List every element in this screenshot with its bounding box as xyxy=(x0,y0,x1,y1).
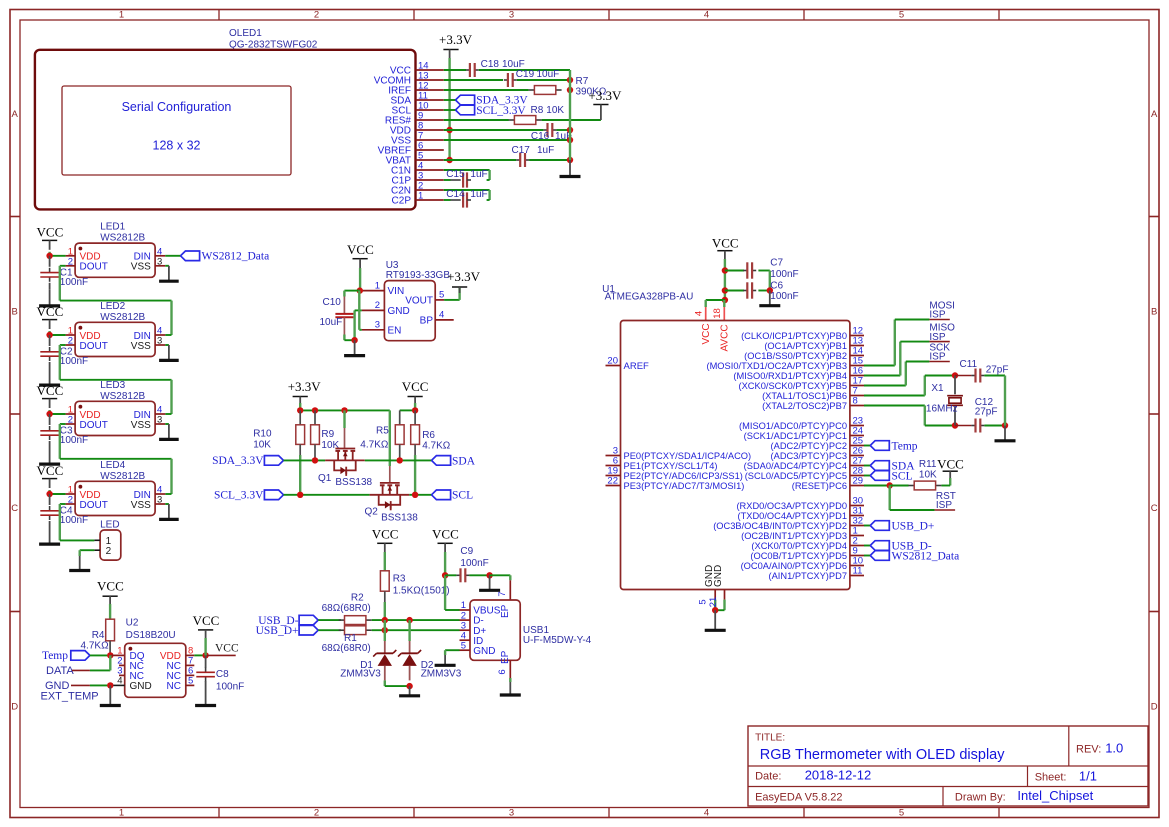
wire Q2 to SCL flag xyxy=(409,494,431,496)
svg-text:NC: NC xyxy=(167,681,181,692)
svg-text:PE2(PTCY/ADC6/ICP3/SS1): PE2(PTCY/ADC6/ICP3/SS1) xyxy=(624,471,743,481)
svg-text:100nF: 100nF xyxy=(60,435,88,446)
svg-text:VCC: VCC xyxy=(37,463,64,478)
transistor Q2 BSS138 xyxy=(370,494,410,496)
net flag USB_D- U1 xyxy=(870,541,889,551)
LED4 pin 1 VDD xyxy=(66,493,76,495)
capacitor C19 xyxy=(504,79,508,81)
svg-text:C7: C7 xyxy=(770,258,783,269)
resistor R7 xyxy=(529,89,535,91)
svg-text:27pF: 27pF xyxy=(986,364,1009,375)
svg-text:C18: C18 xyxy=(481,59,500,70)
svg-text:10K: 10K xyxy=(253,440,271,451)
svg-text:+3.3V: +3.3V xyxy=(439,32,473,47)
svg-text:DOUT: DOUT xyxy=(80,262,108,273)
svg-text:100nF: 100nF xyxy=(770,291,798,302)
junction dot C19 ground rail xyxy=(567,77,573,83)
ground symbol OLED decoupling rail xyxy=(569,160,571,177)
svg-text:OLED1: OLED1 xyxy=(229,28,262,39)
svg-text:27pF: 27pF xyxy=(975,406,998,417)
junction dot C7 line xyxy=(722,267,728,273)
net label RST ISP xyxy=(935,509,956,511)
wire C2N loop xyxy=(444,189,490,191)
U2 body xyxy=(125,643,186,697)
wire PB4 to MISO ISP xyxy=(864,375,900,377)
ground rail vertical at OLED right xyxy=(569,70,571,160)
capacitor C10 xyxy=(343,291,345,297)
wire Q1 to SDA flag xyxy=(365,459,432,461)
OLED1 pin 5 VBAT xyxy=(416,159,444,161)
ground symbol C1 xyxy=(49,290,51,306)
U1 pin 23 PC0 xyxy=(850,425,864,427)
svg-text:Q2: Q2 xyxy=(365,507,379,518)
net flag WS2812_Data U1 xyxy=(870,551,889,561)
wire VCC to LED1 VDD xyxy=(50,255,66,257)
junction dot D2 D- xyxy=(406,617,412,623)
svg-text:(OC2B/INT1/PTCXY)PD3: (OC2B/INT1/PTCXY)PD3 xyxy=(741,531,847,541)
svg-text:(XTAL1/TOSC1)PB6: (XTAL1/TOSC1)PB6 xyxy=(762,391,847,401)
wire SDA_3.3V line xyxy=(284,459,326,461)
svg-text:VCC: VCC xyxy=(37,304,64,319)
wire USB_D- to R2 xyxy=(318,619,341,621)
svg-text:5: 5 xyxy=(899,807,904,818)
ground symbol U2 xyxy=(109,685,111,705)
U1 pin 8 PB7 xyxy=(850,405,864,407)
svg-text:C6: C6 xyxy=(770,280,783,291)
junction dot VDD +3.3V xyxy=(446,127,452,133)
USB1 pin 3 D+ xyxy=(460,629,471,631)
wire USB_D+ to R1 xyxy=(318,629,341,631)
svg-text:BSS138: BSS138 xyxy=(335,477,372,488)
svg-text:4.7KΩ: 4.7KΩ xyxy=(360,439,389,450)
capacitor C12 xyxy=(955,425,971,427)
wire C19 to ground rail xyxy=(517,79,570,81)
svg-text:(OC3B/OC4B/INT0/PTCXY)PD2: (OC3B/OC4B/INT0/PTCXY)PD2 xyxy=(713,521,847,531)
junction dot C6 right xyxy=(767,287,773,293)
ground symbol C9 xyxy=(489,575,491,590)
U1 pin 30 PD0 xyxy=(850,505,864,507)
wire VBAT pin to C17 xyxy=(444,159,516,161)
ground symbol U1 xyxy=(714,610,716,630)
wire VCC rail to R5 xyxy=(400,409,415,411)
svg-text:5: 5 xyxy=(439,289,444,300)
wire GND pin to ground xyxy=(445,649,459,651)
USB1 pin 1 VBUS xyxy=(460,609,471,611)
svg-text:PE1(PTCXY/SCL1/T4): PE1(PTCXY/SCL1/T4) xyxy=(624,461,718,471)
ground symbol C3 xyxy=(49,448,51,464)
ground symbol LED4 VSS xyxy=(165,503,169,505)
svg-text:A: A xyxy=(1151,109,1158,120)
svg-text:DOUT: DOUT xyxy=(80,500,108,511)
USB1 pin 5 GND xyxy=(460,649,471,651)
ground symbol LED indicator xyxy=(79,556,81,571)
ground symbol C6 C7 xyxy=(769,291,771,306)
LED indicator pin 2 xyxy=(94,549,100,551)
net flag SDA U1 xyxy=(870,461,889,471)
wire +3.3V rail xyxy=(300,409,390,411)
svg-text:16MHz: 16MHz xyxy=(926,403,958,414)
svg-text:1: 1 xyxy=(119,807,124,818)
svg-text:VCC: VCC xyxy=(402,379,429,394)
svg-text:R6: R6 xyxy=(422,430,435,441)
capacitor C7 xyxy=(725,270,744,272)
svg-text:2: 2 xyxy=(106,546,112,557)
svg-text:EasyEDA V5.8.22: EasyEDA V5.8.22 xyxy=(755,791,842,803)
svg-text:RT9193-33GB: RT9193-33GB xyxy=(386,270,451,281)
OLED1 pin 8 VDD xyxy=(416,129,444,131)
junction dot VBUS C9 xyxy=(442,572,448,578)
svg-text:(OC1B/SS0/PTCXY)PB2: (OC1B/SS0/PTCXY)PB2 xyxy=(744,351,847,361)
svg-text:21: 21 xyxy=(708,597,719,608)
svg-text:VSS: VSS xyxy=(131,500,151,511)
U1 pin 18 AVCC xyxy=(723,307,725,321)
U3 pin 2 GND xyxy=(362,309,385,311)
U1 pin 9 PD5 xyxy=(850,555,864,557)
svg-text:B: B xyxy=(12,307,18,318)
junction dot R9 SDA line xyxy=(312,457,318,463)
svg-text:U-F-M5DW-Y-4: U-F-M5DW-Y-4 xyxy=(523,635,592,646)
capacitor C14 xyxy=(444,199,451,201)
wire C18 to ground rail corner xyxy=(479,69,570,71)
net label MOSI ISP xyxy=(929,319,949,321)
LED indicator pin 1 xyxy=(94,539,100,541)
svg-text:(TXD0/OC4A/PTCXY)PD1: (TXD0/OC4A/PTCXY)PD1 xyxy=(737,511,847,521)
ground symbol D1 D2 xyxy=(409,686,411,696)
OLED1 pin 1 C2P xyxy=(416,199,444,201)
svg-text:2: 2 xyxy=(68,495,73,506)
svg-text:VOUT: VOUT xyxy=(405,295,433,306)
wire VOUT to +3.3V xyxy=(444,299,460,301)
svg-text:(OC0B/T1/PTCXY)PD5: (OC0B/T1/PTCXY)PD5 xyxy=(750,551,847,561)
svg-text:C14: C14 xyxy=(446,189,465,200)
U1 pin 20 AREF xyxy=(606,365,621,367)
svg-text:(ADC3/PTCY)PC3: (ADC3/PTCY)PC3 xyxy=(771,451,847,461)
wire SCL_3.3V line xyxy=(284,494,370,496)
svg-text:4: 4 xyxy=(439,309,444,320)
svg-text:100nF: 100nF xyxy=(60,515,88,526)
U1 pin 19 PE2 xyxy=(606,475,621,477)
wire R11 to VCC xyxy=(949,478,951,486)
U1 pin 12 PB0 xyxy=(850,335,864,337)
LED3 pin 3 VSS xyxy=(155,423,165,425)
resistor R8 xyxy=(509,119,515,121)
junction dot X1 top xyxy=(952,372,958,378)
svg-text:1uF: 1uF xyxy=(470,189,487,200)
svg-text:WS2812B: WS2812B xyxy=(100,391,145,402)
OLED1 pin 12 IREF xyxy=(416,89,444,91)
svg-text:Q1: Q1 xyxy=(318,473,332,484)
svg-text:C9: C9 xyxy=(460,546,473,557)
capacitor C3 decoupling xyxy=(49,414,51,425)
svg-text:ISP: ISP xyxy=(936,500,952,511)
junction dot VDD ground rail xyxy=(567,127,573,133)
svg-text:BP: BP xyxy=(420,315,434,326)
U1 pin 16 PB4 xyxy=(850,375,864,377)
wire GND stub to U2 pin4 xyxy=(90,684,110,686)
svg-text:R9: R9 xyxy=(321,429,334,440)
svg-text:R10: R10 xyxy=(253,429,272,440)
svg-text:3: 3 xyxy=(157,495,162,506)
svg-text:(OC0A/AIN0/PTCXY)PD6: (OC0A/AIN0/PTCXY)PD6 xyxy=(741,561,847,571)
ground symbol LED2 VSS xyxy=(165,344,169,346)
wire VCC to LED3 VDD xyxy=(50,413,66,415)
svg-text:ATMEGA328PB-AU: ATMEGA328PB-AU xyxy=(605,292,694,303)
U1 pin 24 PC1 xyxy=(850,435,864,437)
svg-text:WS2812B: WS2812B xyxy=(100,233,145,244)
wire LED indicator pin2 to ground xyxy=(80,549,95,551)
USB1 pin 6 EP xyxy=(509,660,511,678)
svg-text:R7: R7 xyxy=(576,76,589,87)
svg-text:1: 1 xyxy=(119,10,124,21)
U1 pin 26 PC3 xyxy=(850,455,864,457)
svg-text:10K: 10K xyxy=(546,105,564,116)
zener diode D2 ZMM3V3 xyxy=(409,641,411,654)
net flag USB_D+ U1 xyxy=(870,521,889,531)
U1 pin 4 VCC xyxy=(705,307,707,321)
LED4 pin 3 VSS xyxy=(155,503,165,505)
svg-text:1uF: 1uF xyxy=(537,145,554,156)
svg-text:5: 5 xyxy=(188,675,193,686)
OLED1 pin 10 SCL xyxy=(416,109,444,111)
wire LED1 DOUT to LED2 DIN xyxy=(60,265,66,267)
junction dot DQ R4 xyxy=(107,652,113,658)
wire PB5 to SCK ISP xyxy=(864,385,906,387)
svg-text:ISP: ISP xyxy=(929,310,945,321)
junction dot C6 line xyxy=(722,287,728,293)
U1 pin 22 PE3 xyxy=(606,485,621,487)
capacitor C4 decoupling xyxy=(49,494,51,505)
wire IREF pin to R7 xyxy=(444,89,529,91)
svg-text:68Ω(68R0): 68Ω(68R0) xyxy=(322,643,371,654)
wire C9 to EP xyxy=(469,574,489,576)
svg-text:Serial Configuration: Serial Configuration xyxy=(122,100,232,114)
U1 pin 1 PD3 xyxy=(850,535,864,537)
svg-text:7: 7 xyxy=(497,591,508,596)
svg-text:WS2812_Data: WS2812_Data xyxy=(892,550,960,562)
capacitor C16 xyxy=(543,129,547,131)
svg-text:R2: R2 xyxy=(351,593,364,604)
ground symbol USB GND xyxy=(444,655,446,665)
OLED1 pin 6 VBREF xyxy=(416,149,444,151)
svg-text:68Ω(68R0): 68Ω(68R0) xyxy=(322,603,371,614)
junction dot C9 ground xyxy=(486,572,492,578)
LED2 WS2812B body xyxy=(75,322,155,356)
resistor R1 xyxy=(339,629,345,631)
wire C1N loop xyxy=(444,169,490,171)
U1 pin 29 PC6 xyxy=(850,485,864,487)
svg-text:C8: C8 xyxy=(216,669,229,680)
svg-text:VCC: VCC xyxy=(37,383,64,398)
svg-text:ISP: ISP xyxy=(929,352,945,363)
svg-text:4: 4 xyxy=(694,311,705,316)
wire EN tied to VIN xyxy=(359,329,362,331)
wire to EP pin 7 xyxy=(490,574,511,576)
ground symbol EP xyxy=(509,682,511,695)
svg-text:D: D xyxy=(1151,702,1158,713)
junction dot U2 VDD VCC xyxy=(202,652,208,658)
svg-text:1.5KΩ(1501): 1.5KΩ(1501) xyxy=(393,586,450,597)
svg-text:LED4: LED4 xyxy=(100,460,125,471)
svg-text:(XCK0/SCK0/PTCXY)PB5: (XCK0/SCK0/PTCXY)PB5 xyxy=(739,381,848,391)
svg-text:18: 18 xyxy=(712,308,723,319)
svg-text:1: 1 xyxy=(375,280,380,291)
ground symbol crystal xyxy=(1004,426,1006,441)
wire VCC pin to C18 xyxy=(444,69,466,71)
U3 pin 1 VIN xyxy=(362,290,385,292)
net flag Temp U2 xyxy=(71,651,90,661)
wire C17 to ground rail xyxy=(529,159,570,161)
zener diode D1 ZMM3V3 xyxy=(384,641,386,654)
svg-text:5: 5 xyxy=(461,640,466,651)
svg-text:4: 4 xyxy=(704,807,709,818)
LED1 pin 3 VSS xyxy=(155,265,165,267)
svg-text:ISP: ISP xyxy=(929,332,945,343)
U1 pin 2 PD4 xyxy=(850,545,864,547)
resistor R6 xyxy=(414,410,416,424)
resistor R3 xyxy=(380,571,389,591)
svg-text:WS2812_Data: WS2812_Data xyxy=(202,251,270,263)
capacitor C17 xyxy=(516,159,520,161)
svg-text:DS18B20U: DS18B20U xyxy=(126,630,176,641)
wire PC6 reset xyxy=(864,485,890,487)
svg-text:C15: C15 xyxy=(446,169,465,180)
svg-text:PE0(PTCXY/SDA1/ICP4/ACO): PE0(PTCXY/SDA1/ICP4/ACO) xyxy=(624,451,752,461)
U1 pin 31 PD1 xyxy=(850,515,864,517)
svg-text:SCL: SCL xyxy=(892,470,913,482)
junction dot VBAT ground rail xyxy=(567,157,573,163)
ground symbol C2 xyxy=(49,369,51,385)
U1 pin 10 PD6 xyxy=(850,565,864,567)
svg-text:VSS: VSS xyxy=(131,420,151,431)
U1 pin 28 PC5 xyxy=(850,475,864,477)
LED4 pin 2 DOUT xyxy=(66,503,76,505)
svg-text:GND: GND xyxy=(473,646,495,657)
wire crystal ground vertical xyxy=(1004,376,1006,426)
junction dot rail R10 xyxy=(297,407,303,413)
U2 pin 5 NC xyxy=(186,684,195,686)
svg-text:EN: EN xyxy=(388,326,402,337)
resistor R4 xyxy=(106,619,115,641)
svg-text:LED3: LED3 xyxy=(100,380,125,391)
svg-text:8: 8 xyxy=(853,396,858,407)
junction dot U1 GND xyxy=(712,607,718,613)
svg-text:WS2812B: WS2812B xyxy=(100,471,145,482)
svg-text:C: C xyxy=(1151,503,1158,514)
svg-text:ZMM3V3: ZMM3V3 xyxy=(421,669,462,680)
wire PD2 to USB_D+ flag xyxy=(864,525,870,527)
svg-text:REV:: REV: xyxy=(1076,744,1101,756)
LED1 pin1 marker xyxy=(79,247,83,251)
junction dot reset xyxy=(887,482,893,488)
svg-text:GND: GND xyxy=(388,306,410,317)
svg-text:10uF: 10uF xyxy=(537,69,560,80)
wire LED1 DIN to WS2812_Data flag xyxy=(165,255,180,257)
svg-text:(XCK0/T0/PTCXY)PD4: (XCK0/T0/PTCXY)PD4 xyxy=(751,541,847,551)
U1 pin 17 PB5 xyxy=(850,385,864,387)
USB1 pin 2 D- xyxy=(460,619,471,621)
wire R1 to D+ xyxy=(372,629,460,631)
svg-text:SCL_3.3V: SCL_3.3V xyxy=(214,490,264,502)
svg-text:AREF: AREF xyxy=(624,361,650,372)
svg-text:VCC: VCC xyxy=(97,578,124,593)
svg-text:4: 4 xyxy=(704,10,709,21)
wire SCL pin to flag xyxy=(444,109,456,111)
wire C10 bottom to U3 GND xyxy=(344,339,354,341)
wire VCC down to VBUS xyxy=(444,575,446,610)
svg-text:2: 2 xyxy=(314,10,319,21)
OLED1 pin 7 VSS xyxy=(416,139,444,141)
svg-text:WS2812B: WS2812B xyxy=(100,312,145,323)
wire R8 to +3.3V stem xyxy=(542,119,601,121)
U2 pin 4 GND xyxy=(110,684,124,686)
svg-text:VCC: VCC xyxy=(712,236,739,251)
svg-text:C19: C19 xyxy=(516,69,535,80)
svg-text:(SCL0/ADC5/PTCY)PC5: (SCL0/ADC5/PTCY)PC5 xyxy=(745,471,847,481)
svg-text:SDA_3.3V: SDA_3.3V xyxy=(212,455,264,467)
wire VCC AVCC feed xyxy=(706,299,725,301)
svg-text:Intel_Chipset: Intel_Chipset xyxy=(1017,788,1093,803)
svg-text:VCC: VCC xyxy=(347,242,374,257)
junction dot C12 ground xyxy=(1002,422,1008,428)
svg-text:2: 2 xyxy=(314,807,319,818)
svg-text:Sheet:: Sheet: xyxy=(1035,771,1067,783)
wire RES# pin to R8 xyxy=(444,119,509,121)
U1 pin 15 PB3 xyxy=(850,365,864,367)
net flag SCL_3.3V level shifter xyxy=(264,490,283,500)
junction dot U3 GND ground xyxy=(351,337,357,343)
crystal X1 16MHz xyxy=(954,376,956,395)
U1 pin 6 PE1 xyxy=(606,465,621,467)
svg-text:3: 3 xyxy=(509,807,514,818)
U2 pin 8 VDD xyxy=(186,654,195,656)
wire PB3 to MOSI ISP xyxy=(864,365,895,367)
svg-text:3: 3 xyxy=(157,336,162,347)
svg-text:2: 2 xyxy=(68,415,73,426)
transistor Q1 BSS138 xyxy=(325,459,365,461)
LED1 WS2812B body xyxy=(75,243,155,277)
junction dot R5 SDA line xyxy=(397,457,403,463)
wire R2 to D- xyxy=(372,619,460,621)
OLED1 pin 9 RES# xyxy=(416,119,444,121)
svg-text:100nF: 100nF xyxy=(60,277,88,288)
LED3 pin 4 DIN xyxy=(155,413,165,415)
svg-text:GND: GND xyxy=(130,681,152,692)
svg-text:SCL: SCL xyxy=(452,490,473,502)
U1 pin 32 PD2 xyxy=(850,525,864,527)
wire PC2 to Temp flag xyxy=(864,445,870,447)
svg-text:20: 20 xyxy=(607,356,618,367)
svg-text:VCC: VCC xyxy=(937,456,964,471)
svg-text:100nF: 100nF xyxy=(770,269,798,280)
net flag SDA_3.3V level shifter xyxy=(264,456,283,466)
junction dot rail Q1 gate xyxy=(341,407,347,413)
svg-text:LED2: LED2 xyxy=(100,301,125,312)
svg-text:4.7KΩ: 4.7KΩ xyxy=(422,440,451,451)
U1 pin 7 PB6 xyxy=(850,395,864,397)
wire PD4 to USB_D- flag xyxy=(864,545,870,547)
wire C7 to C6 xyxy=(769,271,771,291)
capacitor C18 xyxy=(466,69,470,71)
capacitor C11 xyxy=(955,375,971,377)
svg-text:VCC: VCC xyxy=(193,613,220,628)
capacitor C8 xyxy=(205,655,207,668)
svg-text:VCC: VCC xyxy=(37,225,64,240)
net flag SDA xyxy=(432,456,451,466)
svg-text:C2P: C2P xyxy=(392,196,412,207)
svg-text:C17: C17 xyxy=(512,145,531,156)
U1 pin 25 PC2 xyxy=(850,445,864,447)
wire LED2 DOUT to LED3 DIN xyxy=(60,344,66,346)
